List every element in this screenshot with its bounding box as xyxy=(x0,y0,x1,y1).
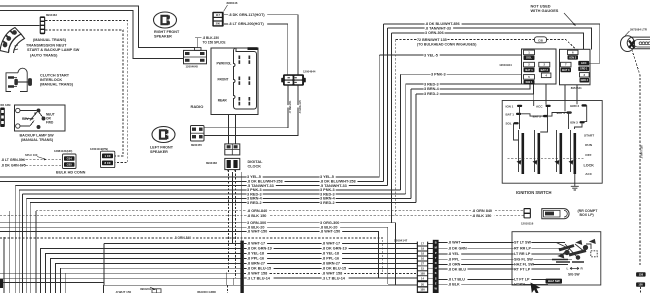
wire .8 BLK / HORN xyxy=(439,283,548,285)
wire 3 YEL-5 riser xyxy=(378,55,380,177)
ignition switch internal links xyxy=(514,101,587,141)
wire 3 RED-2 to ign conn xyxy=(416,85,533,94)
wire bundle drop xyxy=(9,211,11,293)
svg-text:3 RED-2: 3 RED-2 xyxy=(424,92,439,96)
svg-text:.8 WHT-150: .8 WHT-150 xyxy=(320,230,340,234)
wire bundle corner xyxy=(51,259,241,293)
svg-text:.8 BLK-150: .8 BLK-150 xyxy=(203,36,220,40)
svg-text:INTERLOCK: INTERLOCK xyxy=(40,78,62,82)
wire lighter gnd (dashed) xyxy=(640,287,642,293)
svg-text:BAT 2: BAT 2 xyxy=(541,68,549,72)
svg-text:DIGITAL: DIGITAL xyxy=(248,160,264,164)
svg-text:72 BRN/WHT 135: 72 BRN/WHT 135 xyxy=(417,38,447,42)
svg-text:D: D xyxy=(435,261,437,265)
wire 3 RED-3 xyxy=(23,193,406,195)
wire .5 TAN/WHT riser xyxy=(387,28,389,186)
svg-text:REAR: REAR xyxy=(218,99,228,103)
svg-text:E: E xyxy=(435,281,437,285)
svg-text:W2 ASM: W2 ASM xyxy=(0,103,10,107)
wire 3 BRN-4 riser xyxy=(410,89,412,198)
svg-text:FRONT: FRONT xyxy=(218,78,229,82)
wire bundle drop xyxy=(22,194,24,293)
wire conn to ign switch 3 xyxy=(564,85,566,101)
label .8 TAN/WHT-33 xyxy=(425,27,454,31)
svg-text:.8 BLK: .8 BLK xyxy=(448,282,460,286)
right front speaker xyxy=(154,12,177,28)
wire 3 BRN-4 xyxy=(26,197,411,199)
svg-text:.8 DK BLU-15: .8 DK BLU-15 xyxy=(247,267,271,271)
svg-text:200: 200 xyxy=(216,22,221,26)
wire 3 RED-3 riser xyxy=(405,84,407,194)
svg-text:C05: C05 xyxy=(67,163,73,167)
wire 3 BRN-4 to ign conn xyxy=(411,85,530,90)
wire .8 DK GRN (dashed, trans sw to bulkhead) xyxy=(45,30,123,156)
svg-text:.8 TAN-201: .8 TAN-201 xyxy=(289,100,292,113)
svg-text:.8 ORN-840: .8 ORN-840 xyxy=(174,236,191,240)
wire .8 DK BLU / RT FT LP xyxy=(439,268,560,270)
svg-text:GRD 2: GRD 2 xyxy=(581,79,589,82)
wire .8 BLK 150 (dashed) xyxy=(0,215,524,217)
svg-text:158: 158 xyxy=(639,272,644,276)
svg-text:SIG FL SW: SIG FL SW xyxy=(514,258,533,262)
label .8 BLK 150 xyxy=(247,214,270,218)
wire clock feed (dashed) xyxy=(235,170,237,278)
svg-text:3 RED-2: 3 RED-2 xyxy=(247,201,262,205)
ignition switch assembly xyxy=(502,101,602,184)
svg-text:3 ORN-306: 3 ORN-306 xyxy=(425,31,444,35)
wire C/B to ign conn (dashed) xyxy=(547,40,577,50)
svg-text:K: K xyxy=(435,271,437,275)
connector 12004147 column 2 xyxy=(433,240,439,293)
svg-text:3 PNK-3: 3 PNK-3 xyxy=(431,73,446,77)
wire .8 BRN-27 xyxy=(244,263,417,265)
wire 3 ORN-306 xyxy=(392,33,584,49)
svg-text:B: B xyxy=(435,241,437,245)
wire clock gnd (dashed) xyxy=(228,170,230,273)
svg-text:3 BRN-4: 3 BRN-4 xyxy=(424,87,440,91)
wire bundle corner xyxy=(46,254,241,293)
connector 8903468 (digital clock) xyxy=(225,158,240,169)
svg-text:BAT 1: BAT 1 xyxy=(506,112,515,116)
wire 200 stub xyxy=(224,23,274,25)
ignition switch connector 8954641 xyxy=(560,49,591,85)
wire .8 WHT 158 left xyxy=(0,272,241,274)
wire bundle corner xyxy=(55,264,241,293)
connector 12004147 column 1 xyxy=(417,242,428,293)
svg-text:.3 LT BLU-14: .3 LT BLU-14 xyxy=(247,276,271,280)
wire .8 ORN / HAZ FL SW xyxy=(439,263,568,265)
wire to trans switch connector xyxy=(0,24,40,26)
wire radio to clock conn B xyxy=(235,115,237,144)
wire .8 WHT 158 xyxy=(244,272,417,274)
svg-text:OFF: OFF xyxy=(585,153,591,157)
svg-text:ACC: ACC xyxy=(581,61,587,65)
in-line connector (clock feed) xyxy=(225,144,240,155)
wire .8 DK BLU/WHT-258 xyxy=(0,180,383,182)
wire clock to panel xyxy=(232,172,234,244)
svg-text:SPLC 100: SPLC 100 xyxy=(25,153,38,157)
svg-text:HORN: HORN xyxy=(514,282,525,286)
svg-text:FWD: FWD xyxy=(46,121,54,125)
svg-text:RT FT LP: RT FT LP xyxy=(514,267,531,271)
svg-text:IGN 3: IGN 3 xyxy=(570,121,578,125)
svg-text:.8 GRA-115: .8 GRA-115 xyxy=(299,100,302,114)
svg-text:SOL: SOL xyxy=(506,122,512,126)
wire .8 DK GRN-675 (dashed) xyxy=(22,164,63,166)
wire conn jumper xyxy=(428,243,433,245)
connector 12010116 xyxy=(524,208,531,218)
svg-text:.8 ORN: .8 ORN xyxy=(448,263,461,267)
svg-text:.8 BRN-27: .8 BRN-27 xyxy=(322,262,340,266)
svg-text:P: P xyxy=(435,251,437,255)
svg-text:117: 117 xyxy=(216,13,221,17)
wire .8 DK BLU/WHT-856 xyxy=(383,24,599,63)
wire lower edge to panel xyxy=(0,282,103,284)
svg-text:3 YEL-5: 3 YEL-5 xyxy=(424,53,438,57)
wire .8 DK GRN / RT RR LP xyxy=(439,247,570,249)
svg-text:BAT 1: BAT 1 xyxy=(525,68,533,72)
radio top tab xyxy=(248,47,258,50)
svg-text:.8 DK GRN: .8 DK GRN xyxy=(448,246,467,250)
wire switch blade xyxy=(20,112,43,127)
svg-text:150: 150 xyxy=(638,283,643,287)
svg-text:LEFT FRONT: LEFT FRONT xyxy=(150,145,174,149)
wire to 158 splice xyxy=(195,38,202,48)
label 72 BRN/WHT 135 xyxy=(417,38,448,42)
ignition switch contacts xyxy=(522,133,525,174)
svg-text:.8 PPL: .8 PPL xyxy=(448,258,460,262)
svg-text:.8 WHT: .8 WHT xyxy=(448,241,461,245)
connector bar (IP harness) xyxy=(240,241,243,293)
wire 3 RED-3 to ign conn xyxy=(406,83,526,85)
wire .8 ORN-840 (dashed) xyxy=(36,210,524,212)
cigar lighter xyxy=(621,36,650,52)
connector 8908146 (radio feed) xyxy=(212,12,223,27)
svg-text:.8 WHT-150: .8 WHT-150 xyxy=(247,230,267,234)
svg-text:IGN 1: IGN 1 xyxy=(506,104,514,108)
wire 3 PNK-3 riser xyxy=(400,74,402,190)
svg-text:150: 150 xyxy=(420,288,425,292)
wire 72 BRN/WHT riser (dashed) xyxy=(395,40,397,216)
svg-text:TO 158 SPLICE: TO 158 SPLICE xyxy=(203,41,226,45)
svg-text:BACKUP LAMP SW: BACKUP LAMP SW xyxy=(20,133,55,137)
bulkhead connector 2 xyxy=(101,151,115,167)
svg-text:BAT 3: BAT 3 xyxy=(562,68,570,72)
svg-text:1 C0: 1 C0 xyxy=(105,154,111,158)
terminal 150 xyxy=(636,282,645,286)
wire bundle corner xyxy=(41,249,241,293)
wire lighter feed (dashed) xyxy=(632,50,640,267)
bulkhead connector 1 xyxy=(63,154,77,169)
wire bundle drop xyxy=(35,211,37,293)
wire .8 LT GRN-594 (dashed) xyxy=(22,159,63,161)
svg-text:2973084 LTR: 2973084 LTR xyxy=(630,27,647,31)
svg-text:.8 ORN 840: .8 ORN 840 xyxy=(472,209,492,213)
svg-text:CLUTCH START: CLUTCH START xyxy=(40,74,70,78)
svg-text:TRANSMISSION NEUT: TRANSMISSION NEUT xyxy=(26,44,67,48)
wire .8 BLK horn row xyxy=(388,283,417,285)
label 3 ORN-306 xyxy=(425,31,445,35)
transmission neutral start & backup lamp switch S1 xyxy=(0,28,25,54)
svg-text:.8 WHT-17: .8 WHT-17 xyxy=(247,242,265,246)
wire .8 LT GRN (dashed, trans sw to bulkhead) xyxy=(45,21,128,163)
svg-text:START: START xyxy=(584,133,594,137)
svg-text:12004119(PN): 12004119(PN) xyxy=(90,147,108,151)
svg-text:8908146: 8908146 xyxy=(227,1,238,5)
wire conn jumper xyxy=(428,263,433,265)
label .8 BLK-20 xyxy=(247,226,268,230)
label .8 LT GRN-200 xyxy=(228,22,267,26)
turn signal / hazard switch assembly xyxy=(512,232,601,285)
label 3 BRN-4 right xyxy=(424,87,440,91)
svg-text:.8 WHT 158: .8 WHT 158 xyxy=(247,272,267,276)
svg-text:HAZ FL SW: HAZ FL SW xyxy=(514,263,535,267)
svg-text:.8 YEL-18: .8 YEL-18 xyxy=(247,252,264,256)
svg-text:(TO BULKHEAD CONN W/GAUGES): (TO BULKHEAD CONN W/GAUGES) xyxy=(417,42,476,46)
connector 12004645 (radio left) xyxy=(195,48,202,51)
svg-text:RT RR LP: RT RR LP xyxy=(514,246,532,250)
svg-text:12004644: 12004644 xyxy=(303,69,316,73)
svg-text:.8 WHT-17: .8 WHT-17 xyxy=(322,242,340,246)
svg-text:RIGHT FRONT: RIGHT FRONT xyxy=(154,30,180,34)
svg-text:.8 DK BLU: .8 DK BLU xyxy=(448,267,466,271)
svg-text:LOCK: LOCK xyxy=(584,164,595,168)
wire .8 DK BLU-15 xyxy=(244,267,417,269)
label .8 GRA-115 xyxy=(293,105,308,107)
svg-text:C/B: C/B xyxy=(538,38,543,42)
wire 72 BRN/WHT 135 (dashed) xyxy=(396,39,535,41)
svg-text:BOX LP): BOX LP) xyxy=(580,213,594,217)
label .8 ORN-840 lower xyxy=(174,237,193,240)
svg-text:.8 PPL-16: .8 PPL-16 xyxy=(322,257,339,261)
svg-text:IGN 3: IGN 3 xyxy=(569,55,576,59)
circuit breaker C/B xyxy=(535,37,547,43)
label .8 ORN-840 xyxy=(247,209,270,213)
svg-text:HAZ SW: HAZ SW xyxy=(548,279,560,283)
wire .8 WHT-17 xyxy=(244,243,417,245)
wire .8 TAN-201 (to LF speaker conn) xyxy=(204,86,288,128)
svg-text:.8 BLK 150: .8 BLK 150 xyxy=(472,214,491,218)
svg-text:8900455: 8900455 xyxy=(191,143,202,147)
svg-text:.8 WHT 158: .8 WHT 158 xyxy=(322,272,342,276)
label .8 DK BLU/WHT-856 xyxy=(425,22,462,26)
wire 3 ORN-300 xyxy=(0,223,396,285)
svg-text:.8 TAN/WHT-33: .8 TAN/WHT-33 xyxy=(425,26,451,30)
svg-text:(MANUAL TRANS): (MANUAL TRANS) xyxy=(40,82,74,86)
wire clock to conn bar xyxy=(240,172,242,241)
wire radio feed B (second line) xyxy=(0,10,184,58)
connector 8900455 (left front speaker) xyxy=(191,126,205,142)
svg-text:START & BACKUP LAMP SW: START & BACKUP LAMP SW xyxy=(27,48,80,52)
wire .8 PPL-16 xyxy=(244,258,417,260)
wire bundle drop xyxy=(25,198,27,293)
cursor arrow annotation xyxy=(531,283,541,293)
svg-text:S: S xyxy=(435,276,437,280)
wire bundle corner xyxy=(65,273,241,293)
svg-text:.8 ORN-840: .8 ORN-840 xyxy=(247,209,267,213)
label 3 ORN-300 xyxy=(247,221,268,225)
wire .5 TAN/WHT-33 xyxy=(15,185,387,187)
svg-text:12010116: 12010116 xyxy=(521,221,534,225)
svg-text:M: M xyxy=(435,246,437,250)
svg-text:.8 LT BLU: .8 LT BLU xyxy=(448,278,465,282)
wire conn to ign switch 2 xyxy=(545,85,547,101)
svg-text:8903468: 8903468 xyxy=(206,161,217,165)
wire rev contact xyxy=(20,110,37,112)
svg-text:ST LT SW: ST LT SW xyxy=(514,241,531,245)
wire conn jumper xyxy=(428,267,433,269)
svg-text:3 ORG-300: 3 ORG-300 xyxy=(320,221,339,225)
svg-text:3 RED-2: 3 RED-2 xyxy=(320,201,335,205)
label 3 RED-3 right xyxy=(424,82,440,86)
wire panel box outline xyxy=(103,285,417,293)
svg-text:.8 PPL-16: .8 PPL-16 xyxy=(247,257,264,261)
label 3 PNK-3 right xyxy=(431,73,447,77)
label 3 RED-2 right xyxy=(424,92,440,96)
label .8 DK GRN-117 xyxy=(228,13,267,17)
svg-text:H: H xyxy=(435,266,437,270)
connector 8904463 (trans switch) xyxy=(40,16,46,34)
svg-text:158: 158 xyxy=(420,271,425,275)
wire .8 LT BLU / LT FT LP xyxy=(439,279,556,281)
svg-text:12004645: 12004645 xyxy=(186,64,199,68)
wire .8 LT GRN-200 to conn xyxy=(274,24,288,75)
svg-text:LT RR LP: LT RR LP xyxy=(514,252,531,256)
svg-text:.8 DK GRN-19: .8 DK GRN-19 xyxy=(322,247,347,251)
svg-text:12884131(HD): 12884131(HD) xyxy=(54,149,72,153)
terminal 158 xyxy=(636,272,646,276)
wire bundle corner xyxy=(60,268,241,293)
svg-text:PWR/VOL: PWR/VOL xyxy=(217,61,232,65)
wire .3 LT BLU-14 xyxy=(244,277,417,279)
svg-text:ACC: ACC xyxy=(536,104,543,108)
wire .8 YEL-18 xyxy=(244,253,417,255)
svg-text:.8 BLK 150: .8 BLK 150 xyxy=(247,214,266,218)
svg-text:3 ORN-300: 3 ORN-300 xyxy=(247,221,266,225)
label .8 WHT-150 xyxy=(247,230,270,234)
svg-text:.5 TAN/WHT-33: .5 TAN/WHT-33 xyxy=(320,184,347,188)
left front speaker xyxy=(152,127,175,143)
svg-text:8904231: 8904231 xyxy=(140,287,151,291)
svg-text:L: L xyxy=(567,267,569,271)
wire .8 DK GRN-19 xyxy=(244,248,417,250)
wire dashed into panel xyxy=(226,285,228,293)
wire .8 GRA-115 (to LF speaker conn) xyxy=(204,86,298,136)
svg-text:8904463: 8904463 xyxy=(46,13,57,17)
svg-text:.8 DK GRN-117(HOT): .8 DK GRN-117(HOT) xyxy=(229,13,266,17)
wire conn jumper xyxy=(428,283,433,285)
svg-text:C04: C04 xyxy=(67,157,73,161)
wire 3 PNK-3 to ign conn xyxy=(401,73,522,75)
svg-text:CLOCK: CLOCK xyxy=(248,164,262,168)
svg-text:ACC: ACC xyxy=(585,172,592,176)
wire radio to clock conn A xyxy=(228,115,230,144)
svg-text:8954641: 8954641 xyxy=(571,86,582,90)
wire .3 LT BLU-14 left xyxy=(0,277,241,279)
clutch start interlock S2 xyxy=(6,68,32,91)
wire conn to ign switch 1 xyxy=(533,85,535,101)
wire bundle drop xyxy=(3,237,5,293)
wire 3 RED-2 xyxy=(30,202,416,204)
svg-text:(RR COMPT: (RR COMPT xyxy=(578,209,599,213)
svg-text:.5 TAN/WHT-33: .5 TAN/WHT-33 xyxy=(247,184,274,188)
svg-text:SPEAKER: SPEAKER xyxy=(150,150,168,154)
svg-text:RUN: RUN xyxy=(585,143,592,147)
svg-text:8 C0: 8 C0 xyxy=(105,161,111,165)
radio internal connector xyxy=(234,48,257,109)
svg-text:GRD 1: GRD 1 xyxy=(580,68,588,71)
svg-text:.8 DK BLU-15: .8 DK BLU-15 xyxy=(322,267,346,271)
turn signal switch mechanism xyxy=(552,240,597,263)
rear compartment box lamp xyxy=(542,209,569,219)
svg-text:(MANUAL TRANS): (MANUAL TRANS) xyxy=(21,138,54,142)
wire conn to ign switch 4 xyxy=(576,85,578,101)
svg-text:12004147: 12004147 xyxy=(394,238,408,242)
connector W2 ASM (backup lamp switch) xyxy=(0,108,5,128)
svg-text:BAT 3: BAT 3 xyxy=(557,111,566,115)
wire conn jumper xyxy=(428,277,433,279)
wire conn jumper xyxy=(428,253,433,255)
svg-text:LT FT LP: LT FT LP xyxy=(514,278,530,282)
svg-text:IGN 1: IGN 1 xyxy=(526,80,533,84)
wire drop to panel 2 xyxy=(232,278,234,285)
svg-text:.8 LT GRN-594: .8 LT GRN-594 xyxy=(1,158,25,162)
wire 117 stub xyxy=(224,14,274,16)
connector 12004644 (speaker harness) xyxy=(281,78,283,83)
wire bundle drop xyxy=(14,186,16,293)
wire .8 DK BLU/WHT riser xyxy=(382,24,384,181)
label .8 WHT-158 vertical xyxy=(635,150,650,152)
small connector (panel) xyxy=(152,289,161,293)
wire 3 RED-2 riser xyxy=(415,94,417,203)
ground (ignition switch) xyxy=(571,174,579,190)
svg-text:.8 DK GRN-19: .8 DK GRN-19 xyxy=(247,247,272,251)
svg-text:.8 LT GRN-200(HOT): .8 LT GRN-200(HOT) xyxy=(229,22,265,26)
svg-text:GRD 2: GRD 2 xyxy=(570,104,580,108)
wire conn jumper xyxy=(428,258,433,260)
wire drop to panel 1 xyxy=(225,273,227,286)
svg-text:SPEAKER: SPEAKER xyxy=(154,34,172,38)
svg-text:3 RED-3: 3 RED-3 xyxy=(424,82,439,86)
wire .8 DK GRN-117 to conn xyxy=(274,15,298,75)
svg-text:WITH GAUGES: WITH GAUGES xyxy=(531,8,559,13)
svg-text:.8 BRN-27: .8 BRN-27 xyxy=(247,262,265,266)
wire conn jumper xyxy=(428,272,433,274)
radio U1 xyxy=(211,48,258,115)
svg-text:IGNITION SWITCH: IGNITION SWITCH xyxy=(516,190,552,195)
wire 3 PNK-3 xyxy=(19,189,400,191)
wire .8 WHT-17 left + panel drop xyxy=(104,244,241,286)
wire .8 PPL / SIG FL SW xyxy=(439,258,572,260)
backup lamp switch S3 xyxy=(15,105,66,131)
wire conn jumper xyxy=(428,248,433,250)
svg-text:.3 LT BLU-14: .3 LT BLU-14 xyxy=(322,276,346,280)
wire bundle drop xyxy=(29,203,31,293)
wire 3 YEL-5 xyxy=(0,176,379,178)
svg-text:(AUTO TRANS): (AUTO TRANS) xyxy=(30,54,58,58)
wire .8 WHT / ST LT SW xyxy=(439,241,565,243)
wire .8 BLK-20 xyxy=(0,227,388,284)
svg-text:BULK HD CONN: BULK HD CONN xyxy=(56,171,86,175)
svg-text:RADIO: RADIO xyxy=(191,104,204,109)
svg-text:(MANUAL TRANS): (MANUAL TRANS) xyxy=(33,38,67,42)
edge connector stub xyxy=(0,279,3,288)
wire 3 ORN riser xyxy=(391,33,393,223)
svg-text:.8 YEL-18: .8 YEL-18 xyxy=(322,252,339,256)
label HAZ SW xyxy=(546,279,563,284)
wire .8 WHT-150 xyxy=(0,232,378,279)
svg-text:SOL: SOL xyxy=(526,56,532,60)
